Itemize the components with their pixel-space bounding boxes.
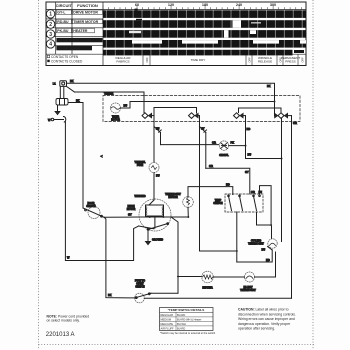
timer rail cam3-cam4 xyxy=(239,108,282,113)
row4 label cell PK-BK DOOR SIGNAL xyxy=(56,38,102,43)
NOTE text xyxy=(47,314,90,322)
svg-text:PK-BU: PK-BU xyxy=(57,29,69,33)
svg-text:OFF: OFF xyxy=(145,57,149,63)
temp switch details table xyxy=(160,308,216,336)
program row separators xyxy=(143,54,298,65)
svg-text:BU-WH: BU-WH xyxy=(177,322,186,326)
svg-text:BK: BK xyxy=(70,79,74,83)
caution text block xyxy=(238,308,296,331)
svg-text:on select models only.: on select models only. xyxy=(47,319,80,323)
svg-text:RD: RD xyxy=(266,258,270,262)
svg-text:CONTACTS OPEN: CONTACTS OPEN xyxy=(51,55,79,59)
signal buzzer A1 xyxy=(219,141,228,150)
svg-text:1: 1 xyxy=(49,12,52,18)
svg-text:MEDIUM: MEDIUM xyxy=(161,317,172,321)
wire signal feed horizontal xyxy=(161,144,219,146)
label THERMOSTAT HEATER xyxy=(165,193,181,199)
timer motor M2 xyxy=(111,103,121,113)
wire OR run to temp switch xyxy=(206,168,250,194)
svg-text:OR: OR xyxy=(209,164,213,168)
temp switch box xyxy=(225,194,263,212)
svg-text:GY-L: GY-L xyxy=(57,11,66,15)
label DOOR SWITCH xyxy=(86,203,96,208)
row3 function cell HEATER xyxy=(73,28,95,33)
svg-text:BU: BU xyxy=(124,104,128,108)
svg-text:BK: BK xyxy=(108,293,112,297)
ground symbol at terminal block xyxy=(55,105,60,114)
row5 label cell PK-BU SIGNAL xyxy=(56,46,92,51)
chart row separators xyxy=(46,19,306,54)
svg-text:PUSH TO: PUSH TO xyxy=(135,281,145,283)
svg-text:THERMOSTAT: THERMOSTAT xyxy=(165,193,181,196)
label PUSH TO START SWITCH xyxy=(135,281,145,289)
svg-text:W: W xyxy=(48,118,51,122)
svg-text:<: < xyxy=(101,155,103,159)
wire cam4 right follower OR down xyxy=(291,116,293,299)
wire N riser xyxy=(63,86,65,98)
svg-text:PK-BU SIGNAL: PK-BU SIGNAL xyxy=(58,47,81,51)
svg-text:DRIVE: DRIVE xyxy=(127,206,135,208)
cam bar track1 closed bar xyxy=(103,9,306,18)
cam bar track2 closed bar xyxy=(103,19,306,28)
page border right xyxy=(312,0,314,350)
svg-text:WINDING: WINDING xyxy=(135,195,146,198)
cam bar track4 closed bar xyxy=(103,40,306,48)
junction motor wire right xyxy=(162,216,164,218)
svg-text:TIMER: TIMER xyxy=(104,91,114,95)
svg-text:REGULAR: REGULAR xyxy=(161,313,174,317)
svg-text:W: W xyxy=(67,256,70,260)
cam switch 1 xyxy=(142,113,154,119)
junction heater tee xyxy=(177,276,179,278)
svg-text:HEATER: HEATER xyxy=(168,196,178,199)
svg-text:SWITCH: SWITCH xyxy=(86,206,96,208)
wire N diagonal to bus2 xyxy=(67,86,75,92)
svg-text:GROUND: GROUND xyxy=(152,238,163,241)
svg-text:RD: RD xyxy=(247,127,251,131)
bottom bus wire xyxy=(151,292,178,294)
label THERMAL FUSE xyxy=(134,161,146,167)
svg-text:2: 2 xyxy=(49,22,52,28)
centrifugal switch contacts xyxy=(139,216,169,230)
junction cam3/signal xyxy=(245,145,247,147)
junction BU node xyxy=(281,158,283,160)
neutral terminal circle xyxy=(51,118,54,121)
svg-text:AIR FLUFF: AIR FLUFF xyxy=(161,326,175,330)
heater R1 xyxy=(202,271,214,283)
cam switch 4 double throw xyxy=(275,113,292,119)
svg-text:3: 3 xyxy=(49,32,52,38)
cam switch 3 xyxy=(234,113,246,119)
svg-text:BU-RD: BU-RD xyxy=(177,313,185,317)
label HI-LIMIT THERMOSTAT xyxy=(240,287,256,292)
svg-text:*TEMP SWITCH DETAILS: *TEMP SWITCH DETAILS xyxy=(168,308,205,312)
svg-text:RD: RD xyxy=(226,182,230,186)
svg-text:THERMOSTAT: THERMOSTAT xyxy=(240,289,256,292)
wire RD feed to door switch xyxy=(68,102,83,104)
page border left xyxy=(38,0,40,350)
svg-text:BU: BU xyxy=(248,153,252,157)
svg-text:operation after servicing.: operation after servicing. xyxy=(238,327,275,331)
wire temp top loop xyxy=(260,186,272,224)
junction thermostat heater bottom xyxy=(187,216,189,218)
row3 circuit cell PK-BU xyxy=(56,28,71,33)
program REGULAR FABRICS xyxy=(116,56,132,64)
cam switch 2 xyxy=(189,113,200,119)
wire temp bottom to stat top xyxy=(257,212,272,239)
wire temp switch bottom run xyxy=(236,212,238,262)
wire cam4 output down to cycling stat xyxy=(281,118,283,158)
program PERMANENT PRESS xyxy=(281,56,301,64)
svg-text:OFF: OFF xyxy=(247,57,251,63)
wire cam2 long output xyxy=(200,116,237,251)
svg-text:L1: L1 xyxy=(53,81,56,85)
wire signal to cam3 junction xyxy=(229,145,246,147)
timer box dashed outline xyxy=(103,96,300,122)
label TIMER MOTOR xyxy=(111,117,120,122)
door switch S1 xyxy=(83,207,104,219)
thermostat heater R2 xyxy=(183,197,194,208)
row1 function cell DRIVE MOTOR xyxy=(73,10,103,15)
circled 1 xyxy=(46,10,54,18)
hi-limit thermostat S4 xyxy=(245,272,255,282)
svg-text:PRESS: PRESS xyxy=(285,60,296,64)
svg-text:TIMER MOTOR: TIMER MOTOR xyxy=(73,20,98,24)
chart column line circle col xyxy=(55,2,57,54)
power terminal block TB1 xyxy=(56,99,68,106)
svg-text:SWITCH: SWITCH xyxy=(213,203,223,205)
svg-text:TIMER: TIMER xyxy=(112,117,120,119)
cycling thermostat S3 xyxy=(268,239,278,250)
chart column line circuit/function xyxy=(71,2,73,54)
svg-text:Wiring errors can cause improp: Wiring errors can cause improper and xyxy=(238,317,295,321)
wire cam1 to thermal fuse xyxy=(153,127,155,163)
svg-text:MOTOR: MOTOR xyxy=(127,209,136,211)
svg-text:SIGNAL: SIGNAL xyxy=(219,153,229,157)
wire cam3 output down xyxy=(245,116,247,146)
svg-text:2201013 A: 2201013 A xyxy=(46,332,75,338)
svg-text:SWITCH: SWITCH xyxy=(135,287,145,289)
wire cam1 riser xyxy=(153,108,155,127)
svg-text:4: 4 xyxy=(49,42,52,48)
label DRIVE MOTOR xyxy=(127,206,136,211)
wire fuse to motor xyxy=(153,173,155,201)
chart header underline xyxy=(46,9,306,11)
svg-text:GY: GY xyxy=(245,170,249,174)
wire door switch to motor xyxy=(104,216,139,218)
wire neutral hook xyxy=(54,117,66,123)
junction cam2 run xyxy=(236,250,238,252)
svg-text:CONTACTS CLOSED: CONTACTS CLOSED xyxy=(51,60,83,64)
svg-text:PK-BK DOOR SIGNAL: PK-BK DOOR SIGNAL xyxy=(58,39,92,43)
switch blade cam2 xyxy=(200,127,207,169)
svg-text:GY: GY xyxy=(201,128,205,131)
timer rail cam1-cam2 xyxy=(154,108,197,114)
power cord plug P1 xyxy=(60,81,67,87)
svg-text:FUNCTION: FUNCTION xyxy=(77,3,98,8)
wire N bus to timer cam1 xyxy=(75,92,145,113)
svg-text:DELICATE: DELICATE xyxy=(161,322,174,326)
wire thermostat heater top to temp switch xyxy=(188,187,233,197)
wire heater to hi-limit xyxy=(213,276,244,278)
circled 4 xyxy=(46,40,54,48)
svg-text:BK: BK xyxy=(267,84,271,88)
circled 2 xyxy=(46,20,54,28)
motor ground symbol xyxy=(146,242,151,245)
svg-text:TIME DRY: TIME DRY xyxy=(191,58,206,62)
svg-text:CAUTION: Label all wires prio: CAUTION: Label all wires prior to xyxy=(238,308,289,312)
svg-text:*Switch may be internal or ext: *Switch may be internal or external to t… xyxy=(160,331,216,335)
svg-text:BU: BU xyxy=(156,174,160,178)
wire timer motor BU to node xyxy=(121,102,275,109)
wire RD bottom run xyxy=(237,250,272,262)
svg-text:OR: OR xyxy=(212,141,216,145)
junction temp loop xyxy=(270,224,272,226)
svg-text:TEMP: TEMP xyxy=(215,200,222,202)
cam bar track5 closed bar xyxy=(103,50,304,56)
svg-text:BU-RD: BU-RD xyxy=(177,326,185,330)
bottom bus wire to OR corner xyxy=(144,297,291,299)
svg-text:CIRCUIT: CIRCUIT xyxy=(56,3,73,8)
wire heater feed xyxy=(178,276,202,278)
wire thermostat heater bottom xyxy=(187,207,189,217)
svg-text:FUSE: FUSE xyxy=(137,165,144,167)
svg-text:MOTOR: MOTOR xyxy=(111,120,120,122)
junction timer node xyxy=(274,101,276,103)
drive motor M1 xyxy=(139,199,171,231)
wire BK bus top xyxy=(67,83,275,115)
chart column line function/bars xyxy=(102,2,104,66)
wire L1 riser xyxy=(59,86,61,98)
wire motor right branch down xyxy=(171,217,178,293)
row2 function cell TIMER MOTOR xyxy=(73,19,103,24)
svg-text:HEATER: HEATER xyxy=(202,286,212,290)
label CYCLING THERMOSTAT xyxy=(248,241,264,246)
svg-text:BU-RD-WH & Heater: BU-RD-WH & Heater xyxy=(177,317,201,321)
wire cam3 node to BU node xyxy=(246,146,282,159)
svg-text:HI-LIMIT: HI-LIMIT xyxy=(243,287,253,289)
svg-text:RD-BU: RD-BU xyxy=(57,20,69,24)
circled 3 xyxy=(46,30,54,38)
wire W long run left side xyxy=(65,122,138,261)
svg-text:BU: BU xyxy=(156,128,160,131)
legend contacts closed xyxy=(47,60,83,64)
push to start switch S2 xyxy=(135,293,151,303)
chart outer frame xyxy=(46,2,306,66)
svg-text:RELEASE: RELEASE xyxy=(258,60,272,64)
junction motor wire left xyxy=(149,216,151,218)
time scale ticks xyxy=(103,5,301,9)
svg-text:DOOR: DOOR xyxy=(88,203,95,205)
cam bar track3 closed bar xyxy=(103,30,306,38)
row2 circuit cell RD-BU xyxy=(56,19,71,24)
row1 circuit cell GY-L xyxy=(56,10,71,15)
switch blade cam1 xyxy=(154,127,161,145)
svg-text:dangerous operation. Verify: dangerous operation. Verify proper xyxy=(238,322,291,326)
thermal fuse F1 xyxy=(149,163,159,173)
program WRINKLE RELEASE xyxy=(258,56,272,64)
legend contacts open xyxy=(47,55,79,59)
temp switch blades xyxy=(228,195,261,211)
svg-text:OR: OR xyxy=(293,121,297,125)
svg-text:BU: BU xyxy=(262,248,266,252)
svg-text:DRIVE MOTOR: DRIVE MOTOR xyxy=(73,11,98,15)
page border bottom xyxy=(39,344,315,346)
wire door switch down to start xyxy=(104,217,135,298)
svg-text:BK: BK xyxy=(76,98,80,102)
wire hi-limit up to stat xyxy=(255,252,276,277)
svg-text:CYCLING: CYCLING xyxy=(251,241,262,243)
svg-text:THERMAL: THERMAL xyxy=(134,161,146,164)
svg-text:FABRICS: FABRICS xyxy=(116,60,129,64)
svg-text:THERMOSTAT: THERMOSTAT xyxy=(248,243,264,246)
motor ground wire xyxy=(147,230,149,242)
svg-text:HEATER: HEATER xyxy=(73,29,88,33)
svg-text:START: START xyxy=(136,283,144,286)
svg-text:PK: PK xyxy=(231,141,235,145)
wire motor run to thermostat heater node xyxy=(139,216,188,218)
svg-text:GY: GY xyxy=(128,213,132,217)
svg-text:disconnection when servicing c: disconnection when servicing controls. xyxy=(238,312,296,316)
svg-text:OR: OR xyxy=(251,191,255,194)
svg-text:OFF: OFF xyxy=(300,57,304,63)
label TEMP SWITCH xyxy=(213,200,223,205)
time scale numbers xyxy=(135,3,276,7)
